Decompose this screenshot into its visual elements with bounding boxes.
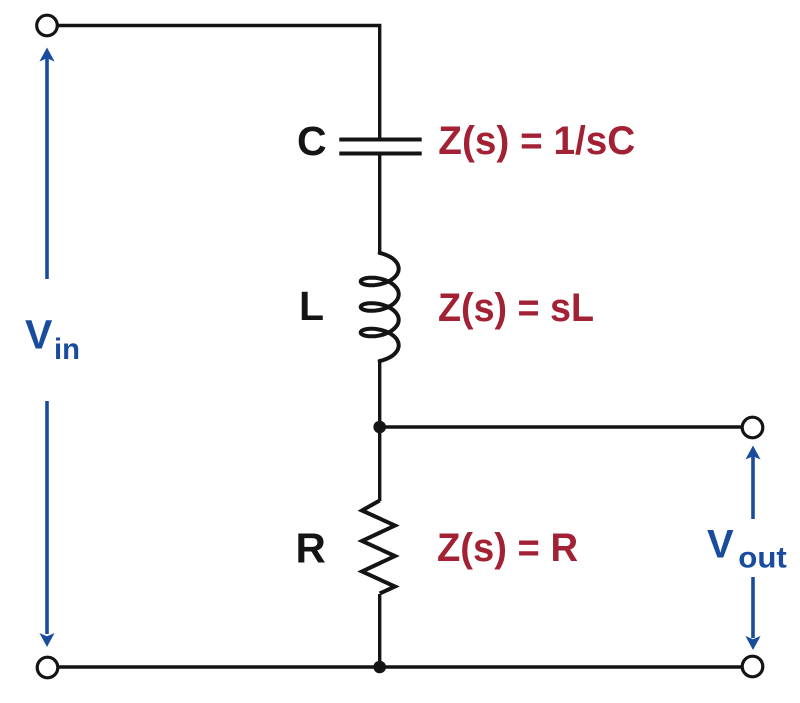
svg-text:out: out <box>738 542 787 575</box>
wire: inductor to node A <box>378 362 381 428</box>
wire: bottom rail <box>59 665 742 668</box>
Vin arrow up segment <box>39 48 54 280</box>
terminal: Vin- (bottom-left) <box>37 657 58 678</box>
node B junction dot <box>373 661 386 674</box>
svg-text:L: L <box>299 283 324 329</box>
svg-text:R: R <box>296 525 326 572</box>
label Vin <box>25 312 80 367</box>
svg-text:Z(s) = 1/sC: Z(s) = 1/sC <box>438 119 635 163</box>
Vin arrow down segment <box>39 401 54 647</box>
terminal: Vout- (bottom-right) <box>742 656 763 677</box>
inductor L coil <box>361 253 399 361</box>
wire: top rail from Vin+ to capacitor <box>59 26 380 141</box>
terminal: Vin+ (top-left) <box>37 15 58 36</box>
label Vout <box>707 523 787 575</box>
svg-text:V: V <box>25 312 53 358</box>
wire: node A to Vout+ <box>380 425 742 428</box>
svg-text:Z(s) = R: Z(s) = R <box>437 526 578 570</box>
capacitor C top plate <box>339 138 421 142</box>
wire: capacitor to inductor <box>378 154 381 253</box>
capacitor C bottom plate <box>339 152 421 156</box>
svg-text:Z(s) = sL: Z(s) = sL <box>438 286 594 330</box>
svg-text:V: V <box>707 523 734 567</box>
resistor R zigzag <box>362 501 395 594</box>
wire: node A to resistor <box>378 427 381 501</box>
Vout arrow down segment <box>745 577 760 650</box>
wire: resistor to node B <box>378 594 381 667</box>
svg-text:C: C <box>297 118 327 164</box>
terminal: Vout+ (right) <box>742 417 763 438</box>
Vout arrow up segment <box>745 446 760 520</box>
node A junction dot <box>373 421 386 434</box>
svg-text:in: in <box>54 333 80 366</box>
